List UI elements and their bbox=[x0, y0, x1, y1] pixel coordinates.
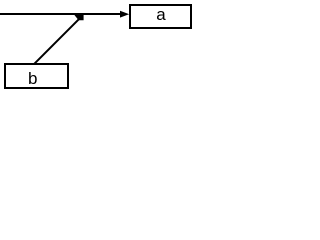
node a box bbox=[130, 5, 191, 28]
svg-text:a: a bbox=[156, 5, 166, 24]
arrowhead of diagonal arrow bbox=[74, 15, 84, 21]
svg-text:b: b bbox=[28, 69, 37, 88]
arrowhead into node a bbox=[120, 11, 129, 18]
wire: horizontal arrow shaft into node a bbox=[0, 13, 122, 15]
node b box bbox=[5, 64, 68, 88]
wire: diagonal arrow shaft from node b bbox=[34, 19, 79, 64]
